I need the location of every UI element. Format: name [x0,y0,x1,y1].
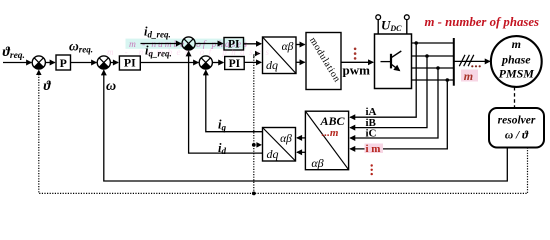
wire iq feedback [206,70,263,131]
svg-text:m: m [464,69,473,83]
junction dot m [446,78,450,82]
svg-text:pwm: pwm [343,63,371,78]
svg-text:m - number of phases: m - number of phases [425,15,540,29]
block modulation [306,33,342,90]
block PI id [224,38,244,51]
svg-text:dq: dq [266,58,278,72]
omega feedback wire [104,70,508,181]
inverter box [375,34,412,89]
label m phases count [461,70,478,82]
svg-text:αβ: αβ [280,133,292,145]
svg-text:...m: ...m [322,127,339,139]
wire ABC to ab-dq bottom [297,151,305,153]
bus bar [453,38,455,86]
feedback wire iB [350,56,427,128]
dark dots on motor wire [471,65,481,67]
block PI iq [225,57,245,70]
svg-text:m: m [512,37,521,51]
theta branch wire dotted vertical [253,54,255,194]
wire bus to motor [454,60,490,62]
svg-text:dq: dq [267,147,279,161]
svg-text:ω / ϑ: ω / ϑ [505,130,529,142]
theta to dq-ab box dotted arrow [254,54,260,58]
wire P to sum2 [71,62,97,64]
junction dot B [425,54,429,58]
wire PI speed to sum4 [140,62,198,64]
theta branch junction [252,192,256,196]
svg-text:resolver: resolver [498,115,536,127]
dashed wire motor to resolver [514,87,516,108]
junction dot A [414,41,418,45]
phase slash marks [459,55,474,66]
inverter output wire phase C [412,67,454,69]
theta junction at ab-dq [252,143,256,147]
svg-text:PI: PI [229,58,241,70]
resolver box [489,108,544,148]
transistor symbol [381,51,402,71]
junction dot C [436,66,440,70]
wire PI iq to dq-ab box [244,61,261,63]
summing junction S1 [32,56,45,69]
highlight artifact band [107,39,269,58]
svg-text:ω: ω [106,79,116,94]
wire sum4 to PI iq [212,62,223,64]
svg-text:PMSM: PMSM [499,67,535,81]
inverter output wire phase B [412,55,454,57]
wire PI id to dq-ab box [244,43,262,45]
block PI speed [119,56,140,70]
wire id feedback [189,51,263,153]
summing junction S4 [199,56,212,69]
DC terminal right [404,15,409,20]
theta to ab-dq box dotted arrow [254,144,261,146]
svg-text:ABC: ABC [319,114,345,128]
svg-text:P: P [60,56,67,70]
wire pwm to inverter [341,61,373,63]
red dots below im [371,164,373,175]
summing junction S2 [97,56,110,69]
svg-text:PI: PI [124,56,136,70]
wire id_req to sum3 [141,43,182,45]
svg-text:i m: i m [366,143,381,155]
svg-text:ϑ: ϑ [44,78,52,93]
wire sum3 to PI id [195,43,223,45]
theta feedback wire dotted [39,70,528,193]
svg-text:phase: phase [501,52,531,66]
motor PMSM [491,36,542,87]
feedback wire iC [350,68,438,138]
inverter output wire phase m [412,79,454,81]
svg-text:iC: iC [366,128,377,140]
block alphabeta to dq transform [263,128,296,162]
feedback wire iA [350,43,416,117]
red dots pwm [354,48,357,60]
block P [56,55,71,70]
wire input to sum1 [3,62,31,64]
svg-text:αβ: αβ [282,41,294,53]
wire transform to modulation bottom [296,61,305,63]
feedback wire im [350,80,447,149]
block ABC transform [305,111,348,170]
label im [365,144,384,154]
wire sum1 to P [45,62,55,64]
inverter output wire phase A [412,42,454,44]
wire transform to modulation top [296,44,305,46]
summing junction S3 [182,37,195,50]
wire ABC to ab-dq top [297,137,305,139]
DC terminal left [376,15,381,20]
block dq to alphabeta transform [263,37,297,74]
wire sum2 to PI speed [110,62,118,64]
svg-text:αβ: αβ [311,156,323,170]
